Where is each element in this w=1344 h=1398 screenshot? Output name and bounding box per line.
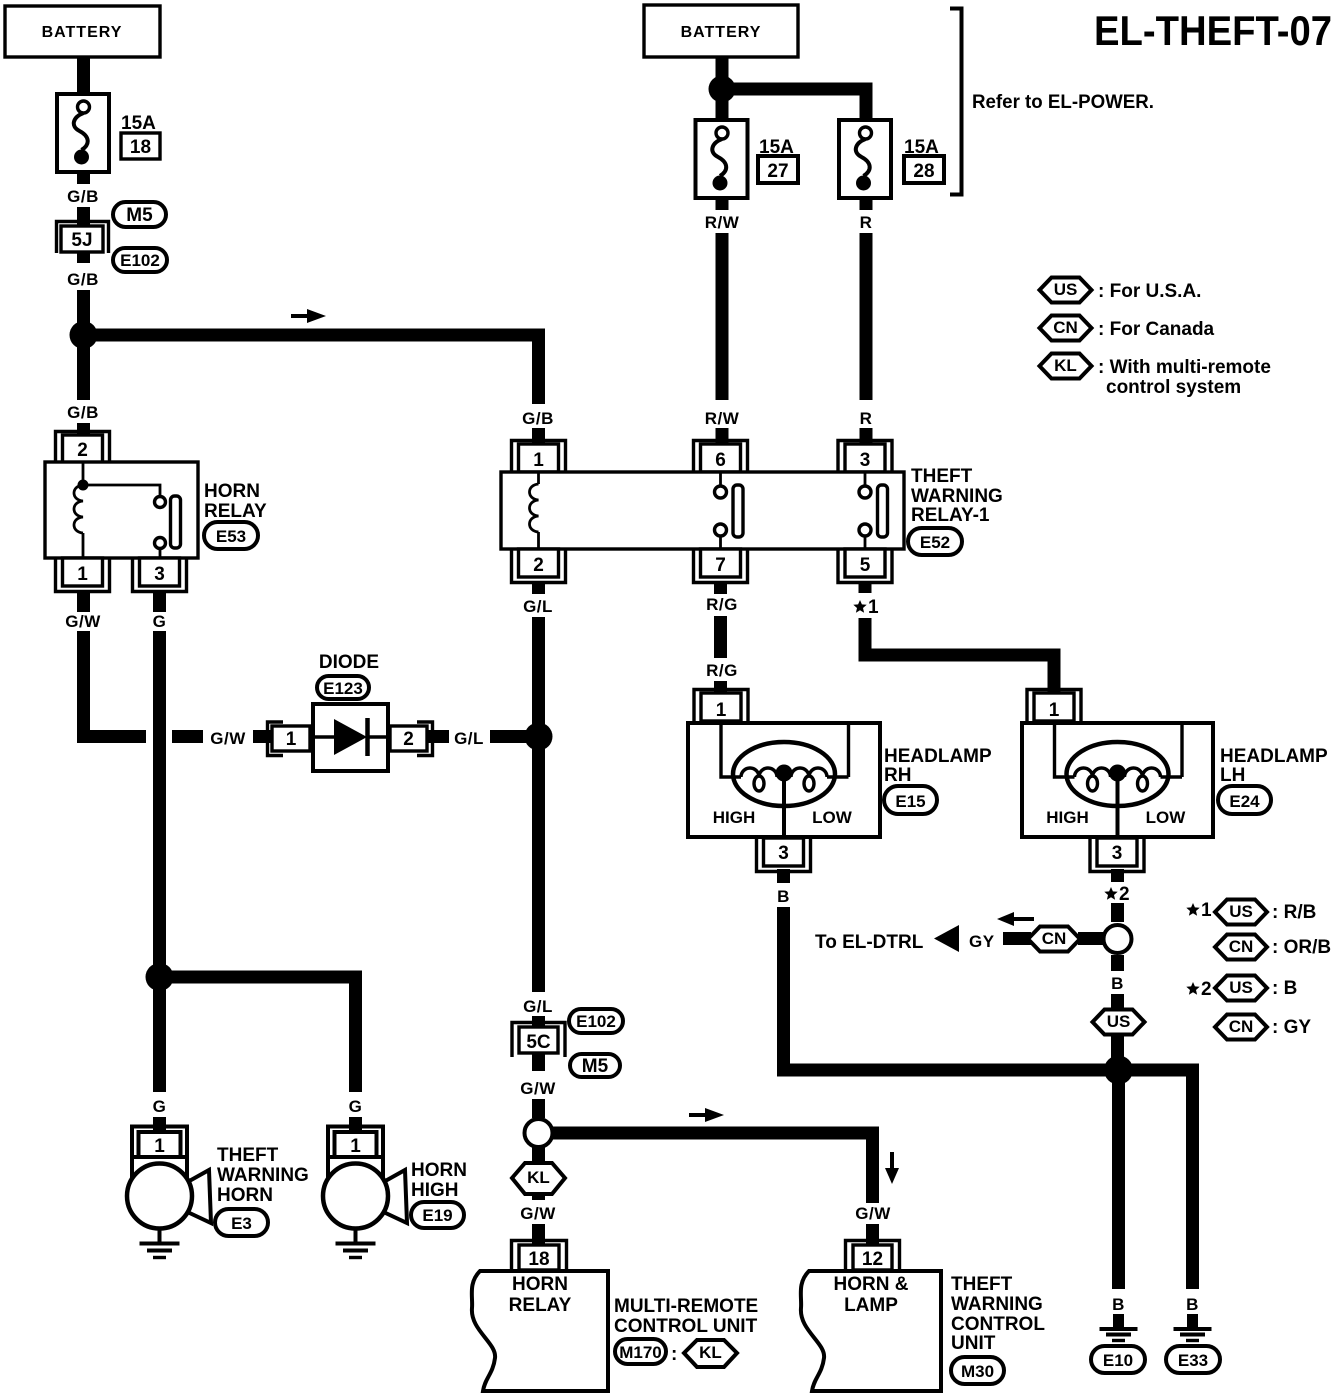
svg-text:: B: : B <box>1272 978 1297 999</box>
svg-text:KL: KL <box>1054 356 1077 375</box>
svg-text:2: 2 <box>77 440 88 461</box>
svg-text:3: 3 <box>154 564 165 585</box>
svg-text:G/L: G/L <box>523 597 553 616</box>
svg-text:M30: M30 <box>961 1362 994 1381</box>
svg-text:HORN &: HORN & <box>834 1274 909 1295</box>
svg-text:1: 1 <box>77 564 88 585</box>
svg-text:1: 1 <box>1049 700 1060 721</box>
svg-text:WARNING: WARNING <box>911 486 1003 507</box>
svg-text:HEADLAMP: HEADLAMP <box>884 746 992 767</box>
svg-text:: OR/B: : OR/B <box>1272 937 1331 958</box>
svg-text:18: 18 <box>130 137 151 158</box>
svg-text:: For Canada: : For Canada <box>1098 319 1215 340</box>
svg-text:1: 1 <box>350 1136 361 1157</box>
svg-text:G/L: G/L <box>454 729 484 748</box>
svg-text:: GY: : GY <box>1272 1017 1311 1038</box>
svg-text:CN: CN <box>1042 929 1067 948</box>
svg-text:: For U.S.A.: : For U.S.A. <box>1098 281 1201 302</box>
svg-text:GY: GY <box>969 932 995 951</box>
svg-text:28: 28 <box>913 161 934 182</box>
svg-text:2: 2 <box>533 555 544 576</box>
svg-text:DIODE: DIODE <box>319 652 379 673</box>
svg-text:US: US <box>1054 280 1078 299</box>
svg-text:control system: control system <box>1106 377 1241 398</box>
svg-text:THEFT: THEFT <box>951 1274 1013 1295</box>
svg-text:R/W: R/W <box>705 213 740 232</box>
svg-text:G/L: G/L <box>523 997 553 1016</box>
svg-text:G/B: G/B <box>67 187 99 206</box>
svg-text:1: 1 <box>868 597 879 618</box>
svg-text:G/W: G/W <box>520 1079 556 1098</box>
svg-text:: With multi-remote: : With multi-remote <box>1098 357 1271 378</box>
svg-text:18: 18 <box>528 1249 549 1270</box>
svg-text:G/W: G/W <box>210 729 246 748</box>
svg-text:RH: RH <box>884 765 911 786</box>
svg-text:M5: M5 <box>126 205 153 226</box>
svg-text:G/W: G/W <box>855 1204 891 1223</box>
svg-text:R/G: R/G <box>706 661 738 680</box>
svg-text:M5: M5 <box>582 1056 609 1077</box>
svg-text:LAMP: LAMP <box>844 1295 898 1316</box>
svg-text:G/W: G/W <box>65 612 101 631</box>
svg-text:R: R <box>860 409 873 428</box>
svg-text:CONTROL UNIT: CONTROL UNIT <box>614 1316 758 1337</box>
svg-text:5J: 5J <box>71 230 92 251</box>
svg-text:UNIT: UNIT <box>951 1333 996 1354</box>
svg-text:To EL-DTRL: To EL-DTRL <box>815 932 924 953</box>
svg-text:B: B <box>777 887 790 906</box>
svg-text:BATTERY: BATTERY <box>42 24 123 41</box>
svg-text:RELAY: RELAY <box>509 1295 572 1316</box>
svg-text:E52: E52 <box>920 533 950 552</box>
svg-text:HEADLAMP: HEADLAMP <box>1220 746 1328 767</box>
svg-text:RELAY: RELAY <box>204 501 267 522</box>
svg-text:: R/B: : R/B <box>1272 902 1316 923</box>
svg-text:BATTERY: BATTERY <box>681 24 762 41</box>
svg-text:HORN: HORN <box>411 1160 467 1181</box>
svg-text:HORN: HORN <box>512 1274 568 1295</box>
svg-text:E123: E123 <box>323 679 363 698</box>
svg-text:6: 6 <box>715 450 726 471</box>
svg-text:THEFT: THEFT <box>217 1145 279 1166</box>
svg-text:KL: KL <box>527 1168 550 1187</box>
svg-text:M170: M170 <box>619 1343 662 1362</box>
svg-text:R/W: R/W <box>705 409 740 428</box>
svg-text:B: B <box>1111 974 1124 993</box>
svg-text:1: 1 <box>154 1136 165 1157</box>
svg-text:5C: 5C <box>526 1032 551 1053</box>
svg-text:LH: LH <box>1220 765 1245 786</box>
svg-text:G: G <box>153 1097 167 1116</box>
svg-text:7: 7 <box>715 555 726 576</box>
svg-text:12: 12 <box>862 1249 883 1270</box>
svg-text:1: 1 <box>716 700 727 721</box>
svg-text:E10: E10 <box>1103 1351 1133 1370</box>
svg-text:G/W: G/W <box>520 1204 556 1223</box>
svg-text:G/B: G/B <box>67 403 99 422</box>
svg-text:3: 3 <box>778 843 789 864</box>
svg-text:5: 5 <box>860 555 871 576</box>
svg-text:B: B <box>1186 1295 1199 1314</box>
svg-text:E33: E33 <box>1178 1351 1208 1370</box>
svg-text:HORN: HORN <box>217 1185 273 1206</box>
svg-text:Refer to EL-POWER.: Refer to EL-POWER. <box>972 92 1154 113</box>
svg-text:15A: 15A <box>121 113 156 134</box>
svg-text:B: B <box>1112 1295 1125 1314</box>
svg-text:CN: CN <box>1053 318 1078 337</box>
svg-text:2: 2 <box>403 729 414 750</box>
svg-text:1: 1 <box>1201 900 1212 921</box>
svg-text:E15: E15 <box>895 792 925 811</box>
svg-text:WARNING: WARNING <box>217 1165 309 1186</box>
svg-text:G: G <box>153 612 167 631</box>
svg-text:G/B: G/B <box>67 270 99 289</box>
svg-text:CN: CN <box>1229 1017 1254 1036</box>
svg-text:EL-THEFT-07: EL-THEFT-07 <box>1094 7 1332 54</box>
svg-text:E102: E102 <box>576 1012 616 1031</box>
svg-text:3: 3 <box>1112 843 1123 864</box>
svg-text:E3: E3 <box>231 1214 252 1233</box>
svg-text:27: 27 <box>767 161 788 182</box>
svg-text:MULTI-REMOTE: MULTI-REMOTE <box>614 1296 758 1317</box>
svg-text:G: G <box>349 1097 363 1116</box>
svg-text:2: 2 <box>1119 884 1130 905</box>
svg-text:CONTROL: CONTROL <box>951 1314 1045 1335</box>
svg-text:E53: E53 <box>216 527 246 546</box>
svg-text:3: 3 <box>860 450 871 471</box>
svg-text::: : <box>671 1344 677 1365</box>
svg-text:HIGH: HIGH <box>411 1180 459 1201</box>
svg-text:WARNING: WARNING <box>951 1294 1043 1315</box>
svg-text:E19: E19 <box>422 1206 452 1225</box>
svg-text:2: 2 <box>1201 979 1212 1000</box>
svg-text:US: US <box>1107 1012 1131 1031</box>
svg-text:R/G: R/G <box>706 595 738 614</box>
svg-text:RELAY-1: RELAY-1 <box>911 505 990 526</box>
svg-text:CN: CN <box>1229 937 1254 956</box>
svg-text:US: US <box>1229 902 1253 921</box>
svg-text:1: 1 <box>533 450 544 471</box>
svg-text:US: US <box>1229 978 1253 997</box>
svg-text:THEFT: THEFT <box>911 466 973 487</box>
svg-text:1: 1 <box>286 729 297 750</box>
svg-text:KL: KL <box>699 1343 722 1362</box>
svg-text:R: R <box>860 213 873 232</box>
svg-text:HORN: HORN <box>204 481 260 502</box>
svg-text:E24: E24 <box>1229 792 1260 811</box>
svg-text:E102: E102 <box>120 251 160 270</box>
svg-text:G/B: G/B <box>522 409 554 428</box>
